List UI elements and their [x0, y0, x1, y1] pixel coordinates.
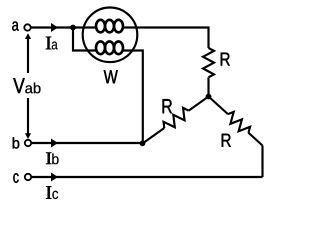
label terminal a [12, 21, 19, 30]
wattmeter voltage coil loops [96, 41, 123, 54]
terminal a circle [24, 24, 30, 30]
resistor R3 zigzag [228, 112, 250, 133]
arrow head current Ic [51, 173, 58, 182]
label current Ia [46, 37, 52, 50]
Vab arrow line lower segment [27, 98, 29, 136]
label terminal b [13, 137, 20, 148]
label resistor R1 [221, 53, 230, 66]
label resistor R3 [222, 134, 231, 147]
wire line c [31, 176, 262, 178]
wattmeter U1 circle [83, 8, 138, 63]
arrow head current Ia [51, 23, 58, 32]
voltage coil left wire [73, 28, 96, 51]
Vab arrowhead up (at a) [25, 33, 31, 39]
wattmeter current coil loops [96, 20, 123, 32]
resistor R2 zigzag [164, 108, 189, 128]
wire line b [31, 142, 143, 144]
wire line a left segment [31, 26, 97, 28]
junction node on line a [70, 25, 76, 31]
resistor R2 lead from node b junction (left diagonal) [143, 97, 209, 144]
label wattmeter W [104, 70, 118, 83]
junction node line b / voltage coil [140, 140, 146, 146]
label current Ib [46, 152, 52, 164]
star node of wye [206, 94, 212, 100]
Vab arrow line upper segment [27, 37, 29, 74]
terminal b circle [25, 140, 31, 146]
resistor R3 leads (right diagonal) [209, 97, 263, 146]
label current Ic [46, 186, 52, 199]
Vab arrowhead down (at b) [25, 133, 31, 139]
wire R1 bottom to star node [207, 77, 209, 96]
arrow head current Ib [51, 139, 58, 148]
wire line a right segment to corner and down [123, 28, 209, 49]
wire right side down to line c [261, 146, 263, 178]
label resistor R2 [163, 99, 172, 113]
label terminal c [13, 173, 18, 183]
resistor R1 zigzag (vertical) [203, 48, 214, 77]
voltage coil right wire down to line b [123, 51, 143, 144]
label voltage Vab [13, 78, 25, 93]
terminal c circle [25, 174, 31, 180]
